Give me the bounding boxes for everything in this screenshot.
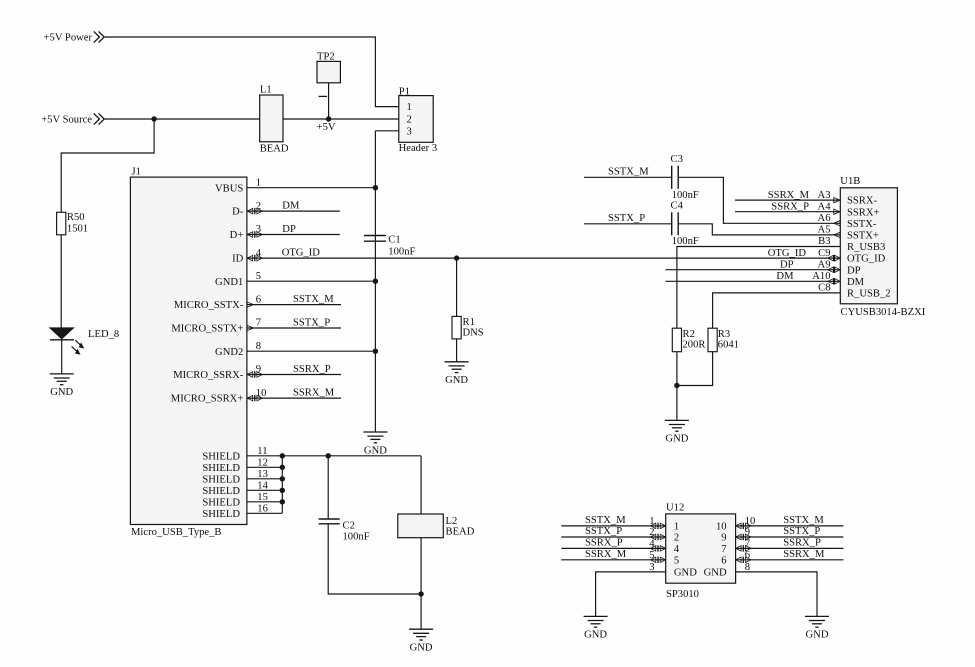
svg-text:8: 8: [745, 562, 750, 573]
svg-text:100nF: 100nF: [343, 531, 370, 542]
inductor L1 BEAD: [260, 85, 289, 155]
U12 pin 5 bidirectional arrow: [650, 557, 665, 563]
svg-text:DP: DP: [282, 224, 296, 235]
svg-text:B3: B3: [818, 236, 830, 247]
svg-text:SSRX_P: SSRX_P: [783, 538, 821, 549]
svg-text:GND: GND: [410, 643, 433, 654]
ground below LED_8: [50, 374, 74, 398]
svg-text:OTG_ID: OTG_ID: [847, 254, 886, 265]
wire C4 to U1B pin A5: [678, 224, 840, 235]
wire U12 pin 9 to SSTX_P right: [736, 536, 844, 538]
U12 pin 9 bidirectional arrow: [736, 534, 751, 540]
ground below C1 rail: [363, 432, 387, 456]
junction SHIELD pin 14: [280, 488, 285, 493]
junction SHIELD pin 13: [280, 476, 285, 481]
wire J1 pin 10 SSRX_M stub: [247, 397, 341, 399]
J1 pin 4 bidirectional arrow: [247, 255, 262, 261]
svg-text:SSTX_M: SSTX_M: [293, 294, 334, 305]
wire SHIELD bus vertical: [281, 456, 283, 514]
U1B pin A9 bidirectional arrow: [828, 267, 841, 273]
junction SHIELD pin 11: [280, 453, 285, 458]
wire OTG_ID to R1: [456, 258, 458, 316]
wire C3 to U1B pin A6: [678, 177, 840, 223]
svg-text:GND: GND: [584, 630, 607, 641]
svg-text:15: 15: [257, 492, 268, 503]
svg-text:16: 16: [257, 503, 268, 514]
capacitor C1 100nF: [364, 235, 415, 258]
svg-text:DP: DP: [847, 265, 861, 276]
svg-text:6: 6: [721, 555, 726, 566]
J1 pin 9 bidirectional arrow: [247, 371, 262, 377]
svg-text:A4: A4: [818, 201, 832, 212]
svg-text:SSTX_P: SSTX_P: [783, 526, 820, 537]
svg-text:GND: GND: [364, 445, 387, 456]
wire J1 pin 7 SSTX_P stub: [247, 327, 341, 329]
U1B pin A3 input arrow: [834, 198, 840, 203]
U1B pin A10 bidirectional arrow: [828, 278, 841, 284]
svg-text:4: 4: [674, 544, 680, 555]
svg-text:SSRX_P: SSRX_P: [585, 538, 623, 549]
svg-text:10: 10: [716, 522, 727, 533]
junction +5V at TP2: [326, 116, 331, 121]
svg-text:L2: L2: [446, 516, 458, 527]
wire SSTX_P to U12 pin 2: [561, 536, 665, 538]
svg-text:GND: GND: [806, 630, 829, 641]
svg-text:100nF: 100nF: [672, 236, 699, 247]
wire U12 pin 6 to SSRX_M right: [736, 559, 844, 561]
svg-text:VBUS: VBUS: [215, 183, 243, 194]
U1B pin C9 bidirectional arrow: [828, 255, 841, 261]
wire +5V Source to L1: [105, 118, 260, 120]
connector P1 Header 3: [399, 87, 438, 154]
LED LED_8: [50, 328, 119, 355]
wire U12 pin 8 to ground: [736, 572, 817, 617]
svg-text:2: 2: [674, 533, 679, 544]
svg-text:200R: 200R: [683, 340, 707, 351]
svg-text:14: 14: [257, 480, 268, 491]
ground below L2: [409, 629, 433, 653]
svg-text:SSTX_M: SSTX_M: [608, 167, 649, 178]
svg-text:100nF: 100nF: [388, 247, 415, 258]
wire U12 pin 10 to SSTX_M right: [736, 525, 844, 527]
svg-text:D-: D-: [232, 207, 244, 218]
svg-text:C2: C2: [343, 520, 355, 531]
resistor R1 DNS: [452, 316, 484, 339]
U12 pin 2 bidirectional arrow: [650, 534, 665, 540]
U12 pin 6 bidirectional arrow: [736, 557, 751, 563]
svg-text:P1: P1: [399, 87, 410, 98]
wire J1 pin 15 stub: [247, 501, 282, 503]
svg-text:R_USB3: R_USB3: [847, 242, 885, 253]
wire J1 pin 14 stub: [247, 489, 282, 491]
svg-text:GND: GND: [674, 568, 697, 579]
capacitor C3 100nF: [671, 154, 699, 201]
svg-text:SHIELD: SHIELD: [202, 463, 240, 474]
svg-text:A6: A6: [818, 213, 831, 224]
wire LED_8 to ground: [61, 340, 63, 374]
svg-text:SSTX_P: SSTX_P: [585, 526, 622, 537]
capacitor C2 100nF: [319, 519, 370, 542]
U12 pin 7 bidirectional arrow: [736, 545, 751, 551]
ground below R2 R3: [665, 420, 689, 444]
U1B pin A6 output arrow: [834, 221, 840, 226]
svg-text:1: 1: [256, 177, 261, 188]
svg-text:9: 9: [721, 533, 726, 544]
svg-text:1: 1: [407, 102, 412, 113]
svg-text:SP3010: SP3010: [666, 589, 699, 600]
svg-text:BEAD: BEAD: [260, 144, 289, 155]
wire U12 pin 3 to ground: [596, 572, 666, 617]
svg-text:DNS: DNS: [463, 327, 484, 338]
svg-text:R_USB_2: R_USB_2: [847, 289, 891, 300]
wire TP2 to +5V net: [328, 83, 330, 119]
wire J1 pin 12 stub: [247, 466, 282, 468]
U12 pin 10 bidirectional arrow: [736, 523, 751, 529]
svg-text:5: 5: [256, 271, 261, 282]
svg-text:SSTX+: SSTX+: [847, 231, 879, 242]
svg-text:7: 7: [256, 318, 261, 329]
wire branch to R50: [61, 119, 154, 212]
wire SHIELD to C2: [327, 456, 329, 519]
wire J1 pin 2 DM stub: [247, 210, 340, 212]
wire C2 to ground node: [328, 524, 421, 594]
junction L2 C2 ground node: [418, 591, 423, 596]
svg-text:SHIELD: SHIELD: [202, 497, 240, 508]
wire L1 to P1 pin 2: [283, 118, 399, 120]
svg-text:R50: R50: [67, 212, 85, 223]
svg-text:A10: A10: [812, 271, 830, 282]
wire P1 pin 3 to GND rail: [375, 130, 398, 132]
svg-text:MICRO_SSRX-: MICRO_SSRX-: [173, 370, 244, 381]
wire SSRX_M to U12 pin 5: [561, 559, 665, 561]
svg-text:D+: D+: [230, 230, 244, 241]
wire SHIELD to L2: [282, 455, 421, 457]
svg-text:13: 13: [257, 469, 268, 480]
svg-text:5: 5: [674, 555, 679, 566]
wire +5V Power to P1 pin 1: [105, 37, 399, 107]
svg-text:U12: U12: [666, 503, 684, 514]
resistor R3 6041: [708, 328, 739, 352]
svg-text:R2: R2: [683, 329, 695, 340]
resistor R2 200R: [672, 328, 706, 352]
svg-text:SSRX-: SSRX-: [847, 196, 877, 207]
svg-text:MICRO_SSTX-: MICRO_SSTX-: [174, 300, 244, 311]
wire R2 to ground: [676, 352, 678, 421]
svg-text:BEAD: BEAD: [446, 527, 475, 538]
wire OTG_ID J1 pin 4 to U1B: [247, 257, 840, 259]
svg-text:J1: J1: [132, 166, 141, 177]
wire R3 to ground node: [677, 352, 713, 386]
svg-text:GND: GND: [445, 375, 468, 386]
ground below U12 left: [584, 616, 608, 640]
port +5V Power: [44, 31, 105, 43]
ground below U12 right: [805, 616, 829, 640]
wire SSTX_M to C3: [584, 176, 672, 178]
svg-text:11: 11: [257, 446, 267, 457]
J1 pin 3 bidirectional arrow: [247, 231, 262, 237]
svg-text:CYUSB3014-BZXI: CYUSB3014-BZXI: [841, 307, 926, 318]
wire R1 to ground: [456, 339, 458, 362]
svg-text:Micro_USB_Type_B: Micro_USB_Type_B: [131, 527, 221, 538]
U1B pin A5 output arrow: [834, 232, 840, 237]
svg-text:SSTX_M: SSTX_M: [783, 515, 824, 526]
wire J1 pin 13 stub: [247, 478, 282, 480]
svg-text:C1: C1: [388, 235, 400, 246]
junction +5V Source branch: [151, 116, 156, 121]
svg-text:100nF: 100nF: [672, 190, 699, 201]
wire J1 pin 1 VBUS: [247, 187, 375, 189]
svg-text:GND: GND: [704, 568, 727, 579]
svg-text:U1B: U1B: [840, 176, 860, 187]
svg-text:6041: 6041: [718, 340, 739, 351]
J1 pin 6 output arrow: [247, 302, 253, 307]
wire J1 pin 6 SSTX_M stub: [247, 304, 341, 306]
svg-text:SSRX_M: SSRX_M: [768, 190, 810, 201]
wire J1 pin 3 DP stub: [247, 234, 340, 236]
wire J1 pin 16 stub: [247, 512, 282, 514]
svg-text:C9: C9: [818, 248, 830, 259]
connector J1 Micro_USB_Type_B: [130, 166, 247, 538]
svg-text:C8: C8: [818, 283, 830, 294]
wire SSTX_P to C4: [584, 223, 672, 225]
wire J1 pin 9 SSRX_P stub: [247, 374, 341, 376]
svg-text:SSRX_M: SSRX_M: [293, 388, 335, 399]
junction R2 R3 ground node: [674, 383, 679, 388]
svg-text:+5V Source: +5V Source: [41, 115, 92, 126]
svg-text:SHIELD: SHIELD: [202, 451, 240, 462]
svg-text:GND: GND: [50, 387, 73, 398]
J1 pin 7 output arrow: [247, 325, 253, 330]
svg-text:MICRO_SSTX+: MICRO_SSTX+: [171, 324, 243, 335]
wire R50 to LED_8: [60, 235, 62, 328]
resistor R50: [57, 212, 88, 235]
svg-text:SSRX_P: SSRX_P: [293, 364, 331, 375]
wire J1 pin 8 GND2: [247, 350, 375, 352]
svg-text:SSRX_M: SSRX_M: [783, 549, 825, 560]
svg-text:SSTX_M: SSTX_M: [585, 515, 626, 526]
port +5V Source: [41, 113, 104, 125]
wire L2 to ground node: [420, 538, 422, 630]
junction GND2: [373, 349, 378, 354]
wire U12 pin 7 to SSRX_P right: [736, 547, 844, 549]
junction SHIELD pin 12: [280, 465, 285, 470]
svg-text:OTG_ID: OTG_ID: [282, 248, 321, 259]
testpoint TP2: [317, 51, 340, 82]
svg-text:2: 2: [407, 115, 412, 126]
wire J1 pin 11 stub: [247, 455, 282, 457]
svg-text:SSTX-: SSTX-: [847, 219, 877, 230]
svg-text:12: 12: [257, 457, 268, 468]
svg-text:+5V: +5V: [317, 122, 336, 133]
svg-text:8: 8: [256, 341, 261, 352]
svg-text:DM: DM: [776, 271, 794, 282]
svg-text:3: 3: [407, 126, 412, 137]
svg-text:MICRO_SSRX+: MICRO_SSRX+: [171, 394, 244, 405]
svg-text:SHIELD: SHIELD: [202, 474, 240, 485]
wire SSRX_M to U1B pin A3: [735, 199, 840, 201]
IC U12 SP3010: [666, 503, 736, 601]
svg-text:L1: L1: [260, 85, 272, 96]
svg-text:SSTX_P: SSTX_P: [293, 318, 330, 329]
svg-text:R3: R3: [718, 329, 730, 340]
wire SHIELD into L2: [420, 456, 422, 514]
U12 pin 1 bidirectional arrow: [650, 523, 665, 529]
svg-text:GND: GND: [665, 434, 688, 445]
J1 pin 2 bidirectional arrow: [247, 208, 262, 214]
inductor L2 BEAD: [398, 514, 475, 538]
svg-text:A5: A5: [818, 225, 831, 236]
svg-text:DP: DP: [780, 259, 794, 270]
wire J1 pin 5 GND1: [247, 280, 375, 282]
svg-text:7: 7: [721, 544, 726, 555]
ground below R1: [445, 362, 469, 386]
svg-text:GND1: GND1: [215, 277, 243, 288]
svg-text:SSRX+: SSRX+: [847, 207, 879, 218]
junction GND1: [373, 279, 378, 284]
svg-text:C3: C3: [671, 154, 683, 165]
svg-text:A9: A9: [818, 259, 831, 270]
svg-text:DM: DM: [282, 201, 300, 212]
svg-text:3: 3: [649, 562, 654, 573]
svg-text:TP2: TP2: [317, 51, 335, 62]
wire R_USB3 B3 to R2: [677, 247, 840, 329]
IC U1B CYUSB3014-BZXI: [840, 176, 925, 318]
svg-text:SSTX_P: SSTX_P: [608, 213, 645, 224]
svg-text:1501: 1501: [67, 223, 88, 234]
wire SSTX_M to U12 pin 1: [561, 525, 665, 527]
U12 pin 4 bidirectional arrow: [650, 545, 665, 551]
svg-text:SSRX_P: SSRX_P: [771, 201, 809, 212]
capacitor C4 100nF: [671, 200, 699, 247]
svg-text:SSRX_M: SSRX_M: [585, 549, 627, 560]
wire SSRX_P to U12 pin 4: [561, 547, 665, 549]
svg-text:Header 3: Header 3: [399, 143, 438, 154]
wire SSRX_P to U1B pin A4: [735, 211, 840, 213]
wire DM to U1B pin A10: [665, 280, 840, 282]
wire R_USB_2 C8 to R3: [713, 293, 841, 328]
svg-text:6: 6: [256, 294, 261, 305]
svg-text:DM: DM: [847, 277, 865, 288]
svg-text:SHIELD: SHIELD: [202, 486, 240, 497]
svg-text:SHIELD: SHIELD: [202, 509, 240, 520]
junction VBUS: [373, 185, 378, 190]
svg-text:ID: ID: [232, 254, 244, 265]
svg-text:1: 1: [674, 522, 679, 533]
svg-text:C4: C4: [671, 200, 684, 211]
svg-text:+5V Power: +5V Power: [44, 33, 93, 44]
svg-text:A3: A3: [818, 190, 831, 201]
junction OTG_ID at R1: [454, 255, 459, 260]
J1 pin 10 bidirectional arrow: [247, 395, 262, 401]
wire DP to U1B pin A9: [665, 269, 840, 271]
svg-text:LED_8: LED_8: [88, 329, 119, 340]
svg-text:GND2: GND2: [215, 347, 243, 358]
wire GND rail vertical: [374, 131, 376, 432]
U1B pin A4 input arrow: [834, 209, 840, 214]
svg-text:OTG_ID: OTG_ID: [768, 248, 807, 259]
junction SHIELD pin 15: [280, 499, 285, 504]
tick mark on TP2 wire: [319, 95, 327, 97]
junction SHIELD C2 branch: [326, 453, 331, 458]
